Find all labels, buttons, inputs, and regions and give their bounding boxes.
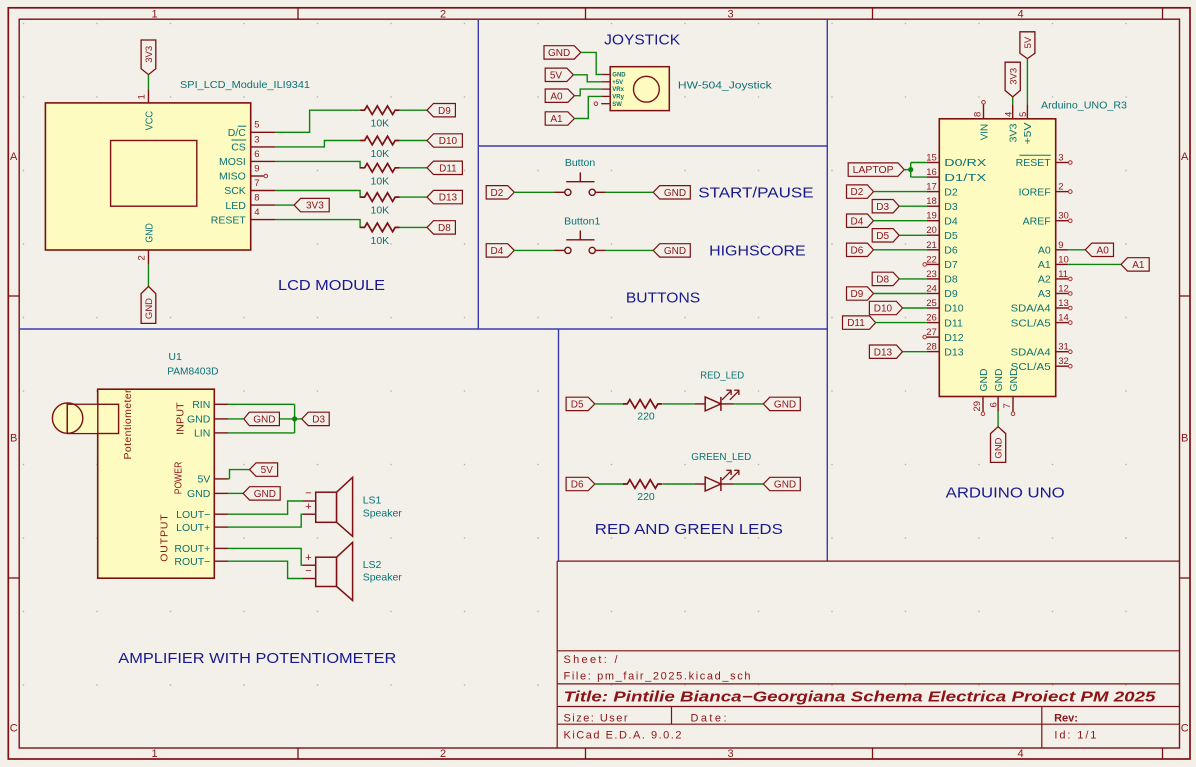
LED GREEN_LED [695,470,739,491]
svg-text:A0: A0 [1038,245,1051,257]
svg-text:D10: D10 [439,136,458,147]
svg-text:SW: SW [612,102,622,108]
svg-text:28: 28 [926,342,937,353]
svg-text:3: 3 [727,9,733,21]
svg-text:GND: GND [612,73,626,79]
hierarchical label D9 [427,104,455,117]
svg-text:GND: GND [143,223,155,243]
wire resistor to label D8 [400,226,427,228]
svg-text:+: + [305,552,311,564]
svg-text:BUTTONS: BUTTONS [626,290,700,307]
svg-text:Button1: Button1 [564,216,600,228]
svg-text:Size: User: Size: User [564,713,628,725]
wire Arduino A0 pin to label [1068,249,1085,251]
svg-text:D5: D5 [571,400,584,411]
svg-text:GND: GND [978,368,990,391]
wire LCD pin to resistor (D13 net) [275,191,360,198]
svg-text:SDA/A4: SDA/A4 [1011,346,1051,358]
svg-text:GREEN_LED: GREEN_LED [691,451,751,463]
svg-text:D8: D8 [876,275,889,286]
hierarchical label D4 (button) [486,244,514,257]
wire 3V3 flag to 3V3 pin [1012,97,1014,105]
svg-text:A: A [1181,151,1189,163]
svg-text:Arduino_UNO_R3: Arduino_UNO_R3 [1041,100,1127,112]
svg-text:220: 220 [637,491,655,503]
wire 5V flag to +5V pin [1026,59,1028,105]
svg-text:D6: D6 [944,245,958,257]
hierarchical label D5 (Arduino) [872,229,899,242]
power symbol GND below Arduino [991,427,1006,463]
svg-text:AMPLIFIER WITH POTENTIOMETER: AMPLIFIER WITH POTENTIOMETER [118,650,396,667]
svg-text:GND: GND [254,489,276,500]
hierarchical label D6 (Arduino) [847,243,874,256]
svg-text:MOSI: MOSI [219,156,246,168]
svg-text:AREF: AREF [1023,215,1051,227]
svg-text:D13: D13 [439,193,458,204]
svg-text:14: 14 [1058,313,1069,324]
svg-text:2: 2 [440,748,446,760]
title block [557,561,1179,748]
svg-text:U1: U1 [168,351,182,363]
svg-text:PAM8403D: PAM8403D [167,366,219,378]
svg-text:4: 4 [1017,748,1023,760]
svg-text:D1/TX: D1/TX [944,172,986,184]
svg-text:OUTPUT: OUTPUT [159,514,171,562]
hierarchical label D3 (amp input) [302,412,330,425]
svg-text:GND: GND [664,246,686,257]
svg-text:3: 3 [1058,153,1063,164]
power symbol GND below LCD [141,286,156,323]
svg-text:Title: Pintilie Bianca−Georgia: Title: Pintilie Bianca−Georgiana Schema … [564,690,1157,706]
svg-text:SCK: SCK [224,185,246,197]
svg-text:RESET: RESET [1016,157,1052,169]
svg-text:VCC: VCC [143,111,155,131]
wire A0 label to joystick VRx pin [574,89,601,96]
wire D9 to Arduino pin [874,293,927,295]
wire D8 to Arduino pin [899,278,927,280]
hierarchical label 5V (amp power) [250,463,278,476]
hierarchical label D9 (Arduino) [847,287,874,300]
wire GND pin to label [228,492,243,494]
svg-text:D8: D8 [944,274,958,286]
svg-text:D10: D10 [944,303,963,315]
svg-text:RED_LED: RED_LED [700,369,744,381]
svg-text:D13: D13 [874,347,893,358]
svg-text:24: 24 [926,284,937,295]
svg-text:8: 8 [254,193,259,204]
svg-text:GND: GND [187,488,211,500]
resistor 10K (D11 net) [360,164,399,173]
wire ROUT+ to LS2 [228,548,303,565]
svg-text:D11: D11 [439,163,457,174]
svg-text:D5: D5 [876,231,889,242]
svg-text:5V: 5V [1023,36,1034,48]
svg-text:D12: D12 [944,332,963,344]
resistor 10K (D9 net) [360,106,399,115]
svg-text:GND: GND [994,437,1005,458]
svg-text:D10: D10 [874,304,893,315]
svg-text:C: C [10,723,18,735]
wire LED to GND [734,483,763,485]
hierarchical label GND (amp input) [244,412,280,425]
svg-text:3V3: 3V3 [1008,68,1019,85]
svg-text:A2: A2 [1038,274,1051,286]
svg-text:6: 6 [988,402,999,407]
svg-text:LS2: LS2 [363,559,382,571]
wire 3V3 flag to LCD VCC pin [147,75,149,90]
svg-text:D/C: D/C [228,127,247,139]
svg-text:SCL/A5: SCL/A5 [1011,317,1051,329]
hierarchical label A1 (Arduino) [1121,258,1149,271]
svg-text:D6: D6 [571,480,584,491]
svg-text:ROUT−: ROUT− [174,556,210,568]
svg-text:Speaker: Speaker [363,508,403,520]
svg-text:LCD MODULE: LCD MODULE [278,277,385,294]
hierarchical label D5 (LED) [566,397,595,410]
wire resistor to LED [663,483,695,485]
svg-text:5V: 5V [197,474,210,486]
svg-text:A0: A0 [550,91,563,102]
wire D10 to Arduino pin [903,307,927,309]
svg-text:1: 1 [151,9,157,21]
svg-text:HIGHSCORE: HIGHSCORE [709,243,806,260]
svg-text:10K: 10K [371,118,390,130]
svg-text:A1: A1 [1038,259,1051,271]
svg-text:B: B [10,433,17,445]
wire D4 to switch [514,249,554,251]
wire D6 to Arduino pin [874,249,927,251]
hierarchical label D11 (Arduino) [843,316,876,329]
switch Button1 [555,231,606,254]
svg-text:25: 25 [926,298,937,309]
svg-text:30: 30 [1058,211,1069,222]
svg-text:3: 3 [254,134,259,145]
svg-text:10K: 10K [371,235,390,247]
svg-text:1: 1 [151,748,157,760]
hierarchical label GND (joystick) [544,46,581,59]
resistor 10K (D8 net) [360,223,399,232]
svg-text:3V3: 3V3 [306,201,324,212]
svg-text:12: 12 [1058,284,1069,295]
switch Button [555,172,606,195]
svg-text:2: 2 [440,9,446,21]
svg-text:GND: GND [548,48,570,59]
svg-text:ARDUINO UNO: ARDUINO UNO [946,485,1065,502]
svg-text:32: 32 [1058,356,1069,367]
svg-text:D2: D2 [491,188,504,199]
svg-text:Speaker: Speaker [363,572,403,584]
wire A1 label to joystick VRy pin [574,96,601,118]
svg-text:A1: A1 [550,114,563,125]
wire LOUT+ to LS1 [228,514,303,527]
hierarchical label D10 (Arduino) [869,301,902,314]
hierarchical label A1 (joystick) [545,112,574,125]
wire LCD pin to resistor (D9 net) [275,110,360,132]
svg-text:27: 27 [926,327,937,338]
wire D3 to Arduino pin [899,205,927,207]
LED RED_LED [695,390,739,411]
wire D11 to Arduino pin [876,322,927,324]
svg-text:18: 18 [926,196,937,207]
svg-text:A1: A1 [1132,260,1145,271]
wire LCD pin to resistor (D11 net) [275,161,360,167]
svg-text:LAPTOP: LAPTOP [853,165,894,176]
unconnected pin marker MISO [264,174,268,178]
svg-text:File: pm_fair_2025.kicad_sch: File: pm_fair_2025.kicad_sch [564,671,751,683]
svg-text:3V3: 3V3 [144,46,155,63]
svg-text:20: 20 [926,225,937,236]
svg-text:Id: 1/1: Id: 1/1 [1054,730,1096,742]
svg-text:220: 220 [637,411,655,423]
svg-text:SDA/A4: SDA/A4 [1011,303,1051,315]
LCD module SPI_LCD_Module_ILI9341 [45,89,275,264]
hierarchical label A0 (Arduino) [1085,243,1113,256]
svg-text:LOUT+: LOUT+ [176,522,210,534]
svg-text:POWER: POWER [173,461,185,494]
svg-text:D3: D3 [944,201,958,213]
svg-text:VRy: VRy [612,95,624,101]
svg-text:9: 9 [1058,240,1063,251]
svg-text:GND: GND [1008,368,1020,391]
svg-text:HW-504_Joystick: HW-504_Joystick [678,79,773,91]
svg-text:CS: CS [231,142,246,154]
svg-text:16: 16 [926,167,937,178]
svg-text:7: 7 [254,178,259,189]
svg-text:15: 15 [926,153,937,164]
svg-text:D4: D4 [944,215,958,227]
svg-text:VRx: VRx [612,87,624,93]
wire D2 to Arduino pin [874,191,927,193]
wire resistor to label D10 [400,140,427,142]
wire switch to GND label [606,249,654,251]
speaker LS1 [303,477,353,536]
svg-text:LS1: LS1 [363,495,382,507]
svg-text:GND: GND [187,414,211,426]
svg-text:D3: D3 [876,202,889,213]
hierarchical label D4 (Arduino) [847,214,874,227]
wire LCD pin to resistor (D8 net) [275,220,360,228]
svg-text:+5V: +5V [1022,123,1034,145]
hierarchical label D8 [427,221,455,234]
hierarchical label D2 (button) [486,186,514,199]
svg-text:LIN: LIN [194,428,210,440]
svg-text:23: 23 [926,269,937,280]
wire resistor to label D13 [400,196,427,198]
svg-text:JOYSTICK: JOYSTICK [604,32,680,49]
wire GND label to joystick GND pin [581,52,601,74]
svg-text:START/PAUSE: START/PAUSE [698,185,813,202]
svg-text:8: 8 [972,112,983,117]
wire 5V pin to label [228,478,230,480]
svg-text:KiCad E.D.A. 9.0.2: KiCad E.D.A. 9.0.2 [564,730,682,742]
power symbol 3V3 above Arduino [1005,62,1020,97]
svg-text:ROUT+: ROUT+ [174,543,210,555]
wire RIN/GND/LIN input net [228,403,295,405]
svg-text:VIN: VIN [978,124,990,141]
wire resistor to LED [663,403,695,405]
wire D5 to Arduino pin [899,234,927,236]
hierarchical label D2 (Arduino) [847,185,874,198]
svg-text:D3: D3 [312,415,325,426]
svg-text:D4: D4 [851,216,864,227]
svg-text:2: 2 [1058,182,1063,193]
hierarchical label D8 (Arduino) [872,272,899,285]
power symbol 3V3 above LCD [141,40,156,75]
svg-text:5: 5 [1018,112,1029,117]
hierarchical label D3 (Arduino) [872,200,899,213]
svg-text:26: 26 [926,313,937,324]
wire LAPTOP to pins D0/D1 [904,169,911,171]
svg-text:C: C [1181,723,1189,735]
hierarchical label GND (button) [653,186,690,199]
svg-text:22: 22 [926,254,937,265]
svg-text:D11: D11 [944,317,963,329]
unconnected pin markers (VIN, D7, D12, right side, GND pins) [982,101,986,105]
svg-text:10K: 10K [371,148,390,160]
svg-text:D2: D2 [851,187,864,198]
joystick module HW-504 [601,67,669,111]
svg-text:GND: GND [664,188,686,199]
hierarchical label GND (LED) [763,397,800,410]
wire LED to GND [734,403,763,405]
wire ROUT- to LS2 [228,561,303,578]
svg-text:+5V: +5V [612,80,623,86]
hierarchical label D6 (LED) [566,477,595,490]
svg-text:GND: GND [993,368,1005,391]
junction (LAPTOP net) [908,167,913,172]
hierarchical label D13 [427,190,462,203]
svg-text:D6: D6 [851,245,864,256]
svg-text:−: − [305,565,311,577]
power symbol 5V above Arduino [1020,32,1035,59]
junction (input GND/D3 net) [292,416,297,421]
wire 5V label to joystick +5V pin [573,75,601,82]
svg-text:2: 2 [136,255,147,260]
hierarchical label D13 (Arduino) [869,345,902,358]
svg-text:7: 7 [1002,403,1013,408]
svg-text:13: 13 [1058,298,1069,309]
svg-text:SPI_LCD_Module_ILI9341: SPI_LCD_Module_ILI9341 [180,79,310,91]
wire D5 to resistor [595,403,625,405]
speaker LS2 [303,542,353,600]
svg-text:−: − [305,488,311,500]
wire LOUT- to LS1 [228,501,303,514]
svg-text:4: 4 [1017,9,1023,21]
svg-text:3V3: 3V3 [1008,123,1020,142]
svg-text:D8: D8 [438,223,451,234]
wire D2 to switch [514,191,554,193]
svg-text:10: 10 [1058,254,1069,265]
svg-text:10K: 10K [371,175,390,187]
hierarchical label 3V3 (LED pin) [294,198,329,211]
svg-text:GND: GND [774,400,796,411]
resistor 220 (GREEN_LED) [623,480,662,489]
svg-text:5V: 5V [261,465,274,476]
svg-text:A: A [10,151,18,163]
svg-text:IOREF: IOREF [1019,186,1051,198]
amplifier U1 PAM8403D [52,389,228,578]
wire LCD pin to resistor (D10 net) [275,141,360,147]
svg-text:17: 17 [926,182,937,193]
hierarchical label A0 (joystick) [545,89,574,102]
wire resistor to label D11 [400,167,427,169]
svg-text:RIN: RIN [192,399,210,411]
resistor 220 (RED_LED) [623,400,662,409]
hierarchical label LAPTOP [848,163,904,176]
svg-text:5: 5 [254,120,259,131]
svg-text:B: B [1181,433,1188,445]
svg-text:21: 21 [926,240,937,251]
hierarchical label GND (LED) [763,477,800,490]
svg-text:Button: Button [565,157,596,169]
svg-text:31: 31 [1058,342,1069,353]
wire LCD GND pin to GND flag [147,264,149,286]
svg-text:INPUT: INPUT [175,402,187,435]
svg-text:LED: LED [225,200,246,212]
svg-text:RED AND GREEN LEDS: RED AND GREEN LEDS [595,521,783,538]
svg-text:D7: D7 [944,259,958,271]
svg-text:4: 4 [254,207,259,218]
hierarchical label GND (amp power) [243,487,280,500]
svg-text:GND: GND [144,298,155,319]
svg-text:4: 4 [1003,112,1014,117]
wire D13 to Arduino pin [903,351,927,353]
svg-text:D9: D9 [438,106,451,117]
svg-text:D4: D4 [491,246,504,257]
wire resistor to label D9 [400,109,427,111]
svg-text:10K: 10K [371,205,390,217]
svg-text:D9: D9 [851,289,864,300]
wire Arduino GND pin to GND flag [997,412,999,427]
svg-text:RESET: RESET [211,214,247,226]
svg-text:GND: GND [774,480,796,491]
wire switch to GND label [606,191,654,193]
wire D6 to resistor [595,483,625,485]
svg-text:D2: D2 [944,186,958,198]
hierarchical label GND (button) [653,244,690,257]
svg-text:MISO: MISO [219,171,246,183]
hierarchical label D11 [427,161,462,174]
svg-text:+: + [305,501,311,513]
svg-text:GND: GND [253,415,275,426]
svg-text:19: 19 [926,211,937,222]
svg-text:5V: 5V [550,70,563,81]
svg-text:Rev:: Rev: [1054,713,1078,725]
svg-text:D5: D5 [944,230,958,242]
resistor 10K (D10 net) [360,136,399,145]
wire LCD LED pin to 3V3 label [275,204,294,206]
svg-text:9: 9 [254,163,259,174]
unconnected pin marker SW [594,102,598,106]
svg-text:Potentiometer: Potentiometer [122,389,134,460]
resistor 10K (D13 net) [360,193,399,202]
svg-text:D11: D11 [847,318,865,329]
svg-text:1: 1 [136,94,147,99]
svg-text:A0: A0 [1097,245,1110,256]
wire D4 to Arduino pin [874,220,927,222]
hierarchical label 5V (joystick) [545,68,573,81]
svg-text:29: 29 [972,401,983,412]
svg-text:3: 3 [727,748,733,760]
wire Arduino A1 pin to label [1068,263,1121,265]
svg-text:6: 6 [254,149,259,160]
svg-text:A3: A3 [1038,288,1051,300]
svg-text:LOUT−: LOUT− [176,509,210,521]
svg-text:D13: D13 [944,346,963,358]
Arduino module Arduino_UNO_R3 [926,104,1069,411]
hierarchical label D10 [427,134,462,147]
svg-text:D9: D9 [944,288,958,300]
